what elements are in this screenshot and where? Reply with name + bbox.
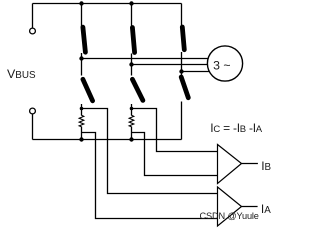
- resistor shunt RB: [129, 115, 134, 127]
- terminal VBUS+: [30, 28, 36, 34]
- wire phase C to motor: [182, 71, 210, 73]
- svg-text:IA: IA: [261, 202, 271, 216]
- svg-text:CSDN @Yuule: CSDN @Yuule: [200, 211, 259, 221]
- transistor switch Q2 low-side leg1: [83, 79, 93, 101]
- op-amp U1 output wire IB: [242, 163, 258, 165]
- wire leg2 resistor to rail: [131, 127, 133, 140]
- node phase A: [79, 56, 83, 60]
- wire leg1 top: [81, 4, 83, 27]
- motor M1 3-phase: [207, 46, 242, 81]
- wire left bottom drop: [32, 114, 34, 139]
- wire leg1 lower: [81, 104, 83, 116]
- transistor switch Q1 high-side leg1: [83, 27, 86, 52]
- wire tap leg2 resistor bottom to op-amp U1 input: [132, 133, 223, 176]
- wire leg2 lower: [131, 104, 133, 116]
- wire bottom rail: [33, 139, 182, 141]
- wire leg1 mid: [81, 53, 83, 76]
- op-amp U1 (IB): [218, 145, 242, 184]
- wire leg3 top: [181, 4, 183, 27]
- transistor switch Q6 low-side leg3: [181, 77, 188, 98]
- transistor switch Q3 high-side leg2: [132, 28, 134, 53]
- wire phase A to motor: [82, 58, 209, 60]
- svg-text:VBUS: VBUS: [7, 67, 36, 81]
- svg-text:IC = -IB -IA: IC = -IB -IA: [210, 121, 262, 135]
- wire phase B to motor: [132, 64, 208, 66]
- node rail leg1: [79, 137, 83, 141]
- wire leg3 mid: [181, 52, 183, 75]
- wire tap leg2 resistor top to op-amp U1 input: [132, 109, 223, 152]
- node rail leg2: [129, 137, 133, 141]
- wire tap leg1 resistor bottom to op-amp U2 input: [82, 133, 223, 219]
- wire leg3 lower: [181, 102, 183, 140]
- transistor switch Q4 low-side leg2: [132, 79, 143, 100]
- op-amp U2 output wire IA: [242, 206, 258, 208]
- node tap leg1: [80, 107, 84, 111]
- wire leg2 mid: [131, 54, 133, 76]
- terminal VBUS-: [30, 108, 36, 114]
- svg-text:3 ~: 3 ~: [213, 59, 230, 73]
- node top rail leg1: [79, 1, 83, 5]
- node phase B: [129, 62, 133, 66]
- wire leg2 top: [131, 4, 133, 27]
- transistor switch Q5 high-side leg3: [182, 27, 184, 50]
- resistor shunt RA: [79, 115, 84, 127]
- node phase C: [179, 69, 183, 73]
- wire tap leg1 resistor top to op-amp U2 input: [82, 109, 223, 194]
- svg-text:IB: IB: [261, 159, 271, 173]
- node tap leg2: [130, 107, 134, 111]
- node top rail leg2: [129, 1, 133, 5]
- op-amp U2 (IA): [218, 187, 242, 226]
- wire left terminal drop: [32, 4, 34, 28]
- wire leg1 resistor to rail: [81, 127, 83, 140]
- wire top rail VBUS+: [33, 3, 182, 5]
